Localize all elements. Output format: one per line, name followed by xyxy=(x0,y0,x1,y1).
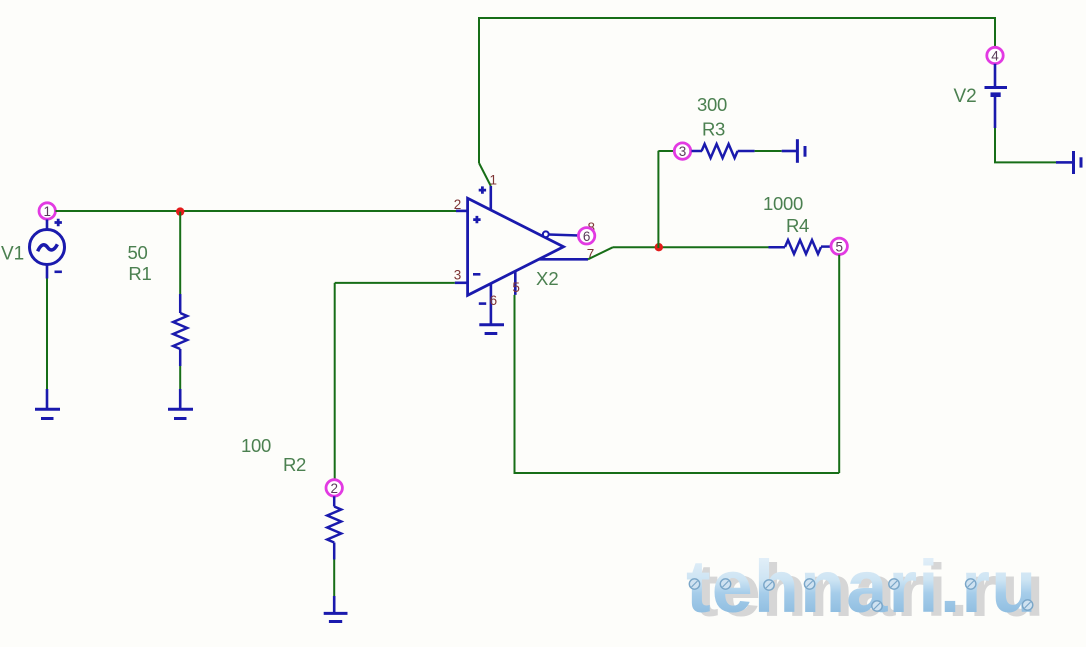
svg-text:300: 300 xyxy=(697,94,727,115)
node 1 xyxy=(39,203,55,219)
svg-text:1000: 1000 xyxy=(763,193,803,214)
label V1 xyxy=(1,243,24,264)
op-amp pin 1 stub xyxy=(489,186,492,211)
node 2 xyxy=(326,480,342,496)
resistor R4 xyxy=(769,240,831,254)
ground (op-amp V-) xyxy=(479,325,504,334)
battery V2 xyxy=(985,64,1008,128)
pin 5 number xyxy=(512,280,520,295)
op-amp X2 xyxy=(468,198,564,295)
wire: top feedback horizontal xyxy=(478,17,995,19)
wire: node 1 to op-amp pin 2 xyxy=(56,210,457,212)
svg-text:R1: R1 xyxy=(128,263,151,284)
op-amp pin 5 stub xyxy=(514,271,517,295)
wire: junction up to node 3 xyxy=(657,151,659,248)
svg-text:R3: R3 xyxy=(702,119,725,140)
svg-text:3: 3 xyxy=(454,267,462,282)
pin 6 number xyxy=(490,293,498,308)
label 50 xyxy=(128,242,148,263)
svg-text:V1: V1 xyxy=(1,243,24,264)
wire: pin 7 diagonal xyxy=(588,247,613,259)
svg-text:tehnari.ru: tehnari.ru xyxy=(686,545,1037,628)
minus marker outside (pin 6) xyxy=(479,302,486,305)
svg-text:7: 7 xyxy=(587,247,595,262)
pin 3 number xyxy=(454,267,462,282)
pin 2 number xyxy=(454,197,462,212)
minus marker inside (pin 3) xyxy=(473,273,480,276)
ground (below R2) xyxy=(324,596,348,622)
svg-text:3: 3 xyxy=(679,144,687,159)
label X2 xyxy=(536,268,559,289)
minus marker V1 xyxy=(55,270,62,273)
junction node at R1 top xyxy=(176,207,184,215)
svg-text:R4: R4 xyxy=(786,215,809,236)
resistor R3 xyxy=(692,144,755,158)
svg-text:6: 6 xyxy=(583,229,591,244)
svg-text:50: 50 xyxy=(128,242,148,263)
pin 8 number (behind node 6 bubble) xyxy=(588,220,596,235)
label 300 xyxy=(697,94,727,115)
wire: stub to node 3 xyxy=(658,150,674,152)
wire: horizontal to R4 xyxy=(613,246,769,248)
label 1000 xyxy=(763,193,803,214)
wire: up to op-amp pin 5 xyxy=(514,295,516,474)
pin 1 number xyxy=(490,173,498,188)
label R4 xyxy=(786,215,809,236)
ground (right of R3, rotated) xyxy=(782,139,805,163)
svg-text:1: 1 xyxy=(43,204,51,219)
svg-text:5: 5 xyxy=(835,239,843,254)
node 3 xyxy=(674,143,690,159)
label R3 xyxy=(702,119,725,140)
wire: R1 to ground xyxy=(179,366,181,389)
resistor R1 xyxy=(173,294,187,366)
svg-text:V2: V2 xyxy=(954,86,977,107)
wire: R2 to ground xyxy=(333,560,335,597)
label V2 xyxy=(954,86,977,107)
wire: V2 minus to right ground xyxy=(994,128,1056,162)
junction node at R3/R4 xyxy=(655,243,663,251)
wire: R3 to ground xyxy=(755,150,782,152)
wire: top feedback left vertical xyxy=(478,17,480,163)
svg-text:1: 1 xyxy=(490,173,498,188)
label R2 xyxy=(283,454,306,475)
svg-text:5: 5 xyxy=(512,280,520,295)
source V1 xyxy=(30,220,65,279)
wire: top feedback right vertical xyxy=(994,17,996,48)
ground (below V1) xyxy=(35,389,60,419)
svg-text:6: 6 xyxy=(490,293,498,308)
resistor R2 xyxy=(327,496,341,559)
wire: bottom feedback horizontal xyxy=(515,472,840,474)
svg-text:X2: X2 xyxy=(536,268,559,289)
wire: node 5 down xyxy=(838,255,840,473)
node 4 xyxy=(987,47,1003,63)
plus marker outside (pin 1) xyxy=(479,186,486,193)
label R1 xyxy=(128,263,151,284)
wire: diagonal down to op-amp pin 1 xyxy=(479,163,491,186)
pin 7 number xyxy=(587,247,595,262)
ground (below R1) xyxy=(168,389,193,419)
wire: V1 to ground xyxy=(46,279,48,390)
label 100 xyxy=(241,435,271,456)
op-amp pin 2 stub xyxy=(456,210,468,213)
op-amp output bubble xyxy=(543,231,549,237)
node 5 xyxy=(831,238,847,254)
op-amp pin 3 stub xyxy=(455,281,468,284)
plus marker inside (pin 2) xyxy=(473,216,480,223)
ground (right of V2, rotated) xyxy=(1056,151,1081,174)
svg-text:100: 100 xyxy=(241,435,271,456)
svg-text:2: 2 xyxy=(330,481,338,496)
watermark tehnari.ru xyxy=(686,545,1045,632)
op-amp pin 7 stub xyxy=(539,258,588,261)
wire: down to node 2 xyxy=(334,283,336,480)
svg-text:4: 4 xyxy=(991,49,999,64)
wire: junction down to R1 xyxy=(179,212,181,294)
plus marker V1 xyxy=(55,219,62,226)
svg-text:R2: R2 xyxy=(283,454,306,475)
output wire to node 6 xyxy=(549,235,579,236)
svg-text:2: 2 xyxy=(454,197,462,212)
op-amp pin 6 stub (V-) xyxy=(490,284,493,324)
node 6 xyxy=(578,228,594,244)
wire: pin 3 horizontal xyxy=(335,282,455,284)
